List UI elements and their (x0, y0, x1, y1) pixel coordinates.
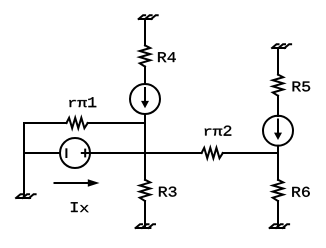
current arrow Ix (55, 179, 100, 187)
label R6 (292, 187, 309, 197)
label R3 (159, 187, 176, 197)
ground (left) (16, 194, 36, 198)
wire power to R4 (144, 19, 146, 45)
resistor R3 (140, 180, 150, 201)
wire R4 to current source (144, 67, 146, 84)
wire main to VCVS left terminal (24, 152, 60, 154)
power symbol (top right rail) (272, 44, 292, 48)
ground (middle) (135, 224, 155, 228)
label R4 (158, 52, 176, 62)
dependent source E1 (- +) (60, 138, 90, 168)
label R5 (293, 82, 310, 92)
wire R3 to ground (144, 201, 146, 228)
ground (right) (269, 224, 289, 228)
wire VCVS right terminal across middle node to rpi2 (90, 152, 202, 154)
power symbol (top middle rail) (138, 15, 158, 19)
resistor R6 (273, 180, 283, 201)
wire power to R5 (277, 48, 279, 75)
wire rpi1 branch left segment (24, 122, 67, 124)
label Ix (71, 202, 88, 212)
wire R6 to ground (277, 201, 279, 228)
wire R5 to current source (277, 96, 279, 116)
wire current source down through nodes to R3 (144, 114, 146, 180)
resistor R4 (140, 45, 150, 66)
wire rpi1 branch right segment (88, 122, 145, 124)
resistor rpi2 (202, 148, 223, 158)
wire left vertical (23, 123, 25, 198)
current source I1 (middle) (130, 84, 160, 114)
wire rpi2 to right node (223, 152, 278, 154)
resistor R5 (273, 75, 283, 96)
wire current source to R6 (277, 146, 279, 180)
resistor rpi1 (67, 118, 88, 128)
label rpi2 (205, 126, 232, 136)
label rpi1 (69, 97, 96, 107)
current source I2 (right) (263, 116, 293, 146)
